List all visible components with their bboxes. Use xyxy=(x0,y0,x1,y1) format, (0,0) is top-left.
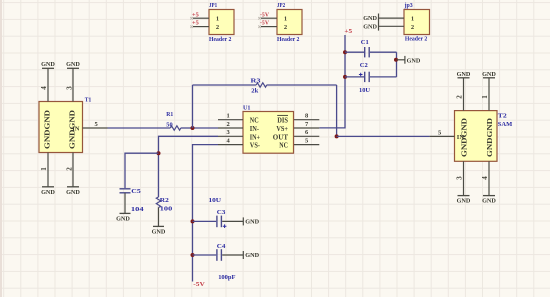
svg-text:jp3: jp3 xyxy=(404,2,414,9)
svg-text:U1: U1 xyxy=(243,105,251,112)
ground (T2 pin2) xyxy=(457,71,471,78)
junction (C3) xyxy=(191,219,195,223)
junction (GND branch) xyxy=(394,58,398,62)
svg-text:C1: C1 xyxy=(361,39,369,46)
svg-text:GND: GND xyxy=(407,57,421,64)
svg-text:T2: T2 xyxy=(498,113,507,120)
wire node to C5 xyxy=(125,153,159,188)
svg-text:GND: GND xyxy=(41,189,55,196)
svg-text:IN-: IN- xyxy=(250,125,260,133)
svg-text:GND: GND xyxy=(245,252,259,259)
svg-text:GND: GND xyxy=(66,189,80,196)
ground (C5) xyxy=(116,213,130,222)
svg-text:Header 2: Header 2 xyxy=(209,36,231,43)
svg-text:104: 104 xyxy=(131,206,145,213)
svg-text:2: 2 xyxy=(65,167,73,171)
wire U1 pin3 to C5/R2 node xyxy=(159,136,219,197)
svg-text:GND: GND xyxy=(116,216,130,223)
svg-text:GND: GND xyxy=(457,71,471,78)
svg-text:R3: R3 xyxy=(251,77,262,84)
resistor R2 xyxy=(156,197,172,227)
svg-text:JP1: JP1 xyxy=(209,2,217,9)
junction (R1 / feedback) xyxy=(191,126,195,130)
svg-text:1: 1 xyxy=(411,16,414,23)
transformer T2 xyxy=(430,78,513,196)
svg-text:100: 100 xyxy=(160,206,172,213)
svg-text:Header 2: Header 2 xyxy=(277,36,299,43)
wire OUT to T2 pin5 xyxy=(337,135,430,137)
svg-text:GNDGND: GNDGND xyxy=(486,118,494,157)
ground (T2 pin3) xyxy=(457,196,471,205)
connector jp3 xyxy=(379,2,430,43)
capacitor C4 (100pF) xyxy=(193,243,244,281)
svg-text:1: 1 xyxy=(216,16,219,23)
svg-text:10U: 10U xyxy=(359,87,370,94)
wire feedback down to OUT xyxy=(336,85,338,136)
svg-text:GND: GND xyxy=(482,198,496,205)
svg-text:GND: GND xyxy=(152,229,166,236)
svg-text:Header 2: Header 2 xyxy=(405,36,427,43)
svg-text:JP2: JP2 xyxy=(277,2,285,9)
transformer T1 xyxy=(39,68,108,187)
svg-text:VS-: VS- xyxy=(250,142,261,150)
junction (pin3 node) xyxy=(157,151,161,155)
svg-text:-5V: -5V xyxy=(260,20,269,27)
svg-text:IN+: IN+ xyxy=(250,133,260,141)
wire feedback up xyxy=(192,85,194,128)
junction (OUT) xyxy=(335,134,339,138)
svg-text:100pF: 100pF xyxy=(218,274,235,281)
svg-text:C4: C4 xyxy=(217,243,226,250)
svg-text:+5: +5 xyxy=(192,20,200,27)
svg-text:GND: GND xyxy=(66,61,80,68)
svg-text:GND: GND xyxy=(363,15,377,22)
svg-text:4: 4 xyxy=(481,176,489,180)
svg-text:1: 1 xyxy=(40,167,48,171)
ground (R2) xyxy=(152,226,166,235)
ground GND (jp3 pin1) xyxy=(363,14,378,23)
wire +5 rail to VS+ xyxy=(319,35,345,128)
svg-text:IN: IN xyxy=(457,134,465,141)
svg-text:-5V: -5V xyxy=(193,281,205,288)
svg-text:VS+: VS+ xyxy=(276,125,288,133)
svg-text:2k: 2k xyxy=(251,88,258,95)
ground (T1 pin3) xyxy=(66,61,80,68)
svg-text:GND: GND xyxy=(245,218,259,225)
ground (T2 pin1) xyxy=(482,71,496,78)
svg-text:R1: R1 xyxy=(166,111,173,118)
svg-text:IN: IN xyxy=(72,125,80,132)
junction (C2 left) xyxy=(343,75,347,79)
ground (T1 pin4) xyxy=(41,61,55,68)
svg-text:GND: GND xyxy=(457,198,471,205)
op-amp U1 xyxy=(218,105,319,154)
wire C1/C2 right side xyxy=(396,52,398,77)
svg-text:DIS: DIS xyxy=(277,117,288,125)
svg-text:+5: +5 xyxy=(344,28,353,35)
svg-text:1: 1 xyxy=(481,95,489,99)
svg-text:4: 4 xyxy=(40,86,48,90)
ground (T2 pin4) xyxy=(482,196,496,205)
svg-text:2: 2 xyxy=(411,24,414,31)
ground (C3) xyxy=(243,217,259,225)
ground (T1 pin2) xyxy=(66,187,80,196)
svg-text:GNDGND: GNDGND xyxy=(44,110,52,149)
ground (T1 pin1) xyxy=(41,187,55,196)
capacitor C2 (polarized, 10U) xyxy=(345,62,397,94)
svg-text:SAM: SAM xyxy=(498,121,512,128)
svg-text:OUT: OUT xyxy=(273,133,289,141)
wire R1 junction to U1 pin2 xyxy=(193,127,219,129)
svg-text:1: 1 xyxy=(284,16,287,23)
junction (C4) xyxy=(191,253,195,257)
svg-text:1: 1 xyxy=(227,113,230,120)
svg-text:T1: T1 xyxy=(85,97,92,104)
svg-text:C5: C5 xyxy=(131,188,141,195)
svg-text:NC: NC xyxy=(250,117,259,125)
svg-text:3: 3 xyxy=(65,86,73,90)
connector JP2 xyxy=(261,2,302,43)
svg-text:10U: 10U xyxy=(209,197,222,204)
svg-text:R2: R2 xyxy=(160,197,169,204)
svg-text:C3: C3 xyxy=(217,209,226,216)
ground GND (C1/C2) xyxy=(397,56,421,64)
svg-text:2: 2 xyxy=(227,121,230,128)
svg-text:GND: GND xyxy=(482,71,496,78)
capacitor C3 (polarized, 10U) xyxy=(193,197,244,228)
no-ERC marks JP1/JP2 pins xyxy=(190,17,261,28)
svg-text:2: 2 xyxy=(216,24,219,31)
svg-text:3: 3 xyxy=(455,176,463,180)
capacitor C5 xyxy=(120,188,145,213)
resistor R1 xyxy=(108,111,193,130)
junction (C1 left) xyxy=(343,50,347,54)
svg-text:C2: C2 xyxy=(360,62,368,69)
capacitor C1 xyxy=(345,39,397,57)
resistor R3 xyxy=(193,77,337,94)
svg-text:2: 2 xyxy=(284,24,287,31)
ground (C4) xyxy=(243,251,259,259)
svg-text:GND: GND xyxy=(41,61,55,68)
svg-text:2: 2 xyxy=(455,95,463,99)
svg-text:-5V: -5V xyxy=(260,11,269,18)
wire U1 pin4 to -5V rail xyxy=(193,145,219,282)
svg-text:GND: GND xyxy=(363,23,377,30)
connector JP1 xyxy=(193,2,234,43)
svg-text:NC: NC xyxy=(279,142,288,150)
ground GND (jp3 pin2) xyxy=(363,22,378,31)
